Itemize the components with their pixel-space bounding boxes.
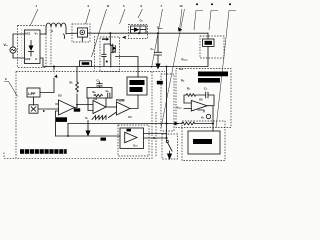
ground arrow under Co bbox=[155, 64, 160, 70]
stray dashed edge right of rectifier bbox=[50, 26, 52, 67]
wire into load detect bbox=[212, 130, 215, 132]
wire blade to arrow bbox=[169, 151, 171, 154]
inductor L bbox=[46, 23, 66, 34]
output capacitor Co bbox=[155, 52, 162, 55]
label 12 bbox=[196, 3, 198, 5]
node switch lane bbox=[166, 123, 168, 125]
bridge diode symbol bbox=[30, 41, 32, 57]
wire U4 to driver bbox=[130, 95, 138, 109]
wire multiplier to U3 bbox=[38, 108, 59, 110]
label 13 bbox=[229, 3, 231, 5]
transistor Q1 bbox=[110, 44, 115, 53]
Ca stubs bbox=[99, 82, 101, 88]
sensor bottom stub bbox=[81, 37, 83, 41]
leader to rectifier box bbox=[30, 9, 38, 26]
label 4 bbox=[211, 3, 213, 5]
sense line label bbox=[157, 81, 163, 85]
Vref source circle bbox=[206, 114, 210, 118]
rectifier bridge box bbox=[24, 30, 40, 64]
switch blade bbox=[168, 143, 173, 152]
wire bus to Q1 bbox=[109, 33, 111, 43]
feedback line long wire bbox=[68, 123, 182, 125]
svg-text:U5: U5 bbox=[199, 98, 203, 102]
comparator out wire bbox=[144, 137, 167, 139]
sensor dot bbox=[82, 32, 84, 34]
load fill mark bbox=[205, 41, 213, 45]
node on comp wire bbox=[153, 137, 155, 139]
LPF box bbox=[27, 88, 40, 97]
svg-text:AC1: AC1 bbox=[25, 32, 31, 36]
module text line1 bbox=[198, 72, 228, 77]
U3 input stubs bbox=[56, 104, 59, 111]
output sense dashed box bbox=[176, 69, 231, 128]
outer dashed bottom extension bbox=[4, 153, 16, 159]
svg-text:PWM: PWM bbox=[116, 99, 125, 103]
leader 13 long to load detect box bbox=[216, 11, 236, 129]
resistor Rn zigzag bbox=[186, 94, 196, 97]
leader 10 bbox=[180, 9, 182, 27]
AC source circle bbox=[10, 47, 16, 53]
op-amp U3 bbox=[59, 100, 75, 115]
leader to sensor box bbox=[86, 9, 91, 24]
inductor current arrow iL bbox=[48, 30, 53, 32]
load comparator box bbox=[120, 128, 144, 148]
ground arrow under Vs bbox=[85, 131, 90, 137]
sensor dashed box bbox=[72, 24, 90, 42]
svg-text:V+: V+ bbox=[35, 32, 39, 36]
svg-text:U3: U3 bbox=[58, 94, 62, 98]
feedback RC wire bbox=[184, 95, 214, 106]
wire source bottom bbox=[13, 53, 24, 58]
node after inductor hook mark bbox=[64, 34, 65, 39]
wire inductor to sensor bbox=[66, 32, 78, 34]
wire vout to U5 bbox=[184, 103, 191, 109]
resistor Rb bbox=[76, 67, 78, 105]
AC source sine mark bbox=[12, 49, 15, 50]
Vref stub bbox=[198, 110, 204, 112]
long dashed separator bbox=[16, 71, 165, 73]
leader 7 bbox=[152, 9, 163, 68]
switch lane dashed box bbox=[162, 134, 178, 159]
wire U3 out to U2 bbox=[75, 105, 94, 108]
svg-text:AC2: AC2 bbox=[25, 57, 31, 61]
sense entry arrow bbox=[53, 66, 55, 68]
comparator top mark bbox=[127, 129, 132, 132]
load detect dashed box bbox=[182, 121, 225, 161]
vertical sense wire bbox=[166, 67, 168, 142]
inner dotted column bbox=[21, 30, 23, 66]
boost diode D bbox=[134, 27, 140, 32]
load dashed box bbox=[200, 36, 224, 58]
stray dashed vertical bbox=[155, 112, 157, 158]
leader 3 long to load comparator bbox=[161, 9, 185, 128]
ground arrow bottom bbox=[167, 154, 172, 161]
load detect text bbox=[193, 139, 212, 144]
wire Co to ground bbox=[157, 55, 159, 64]
wire entry to LPF bbox=[40, 78, 54, 93]
input label bbox=[101, 138, 107, 141]
diode dashed box bbox=[129, 25, 148, 39]
driver aux wire bbox=[144, 133, 167, 135]
snubber capacitor plates bbox=[102, 55, 106, 57]
node at diode out bbox=[138, 32, 140, 34]
wire Q1 source down bbox=[111, 53, 114, 68]
current sensor box bbox=[78, 28, 88, 37]
node U5 out bbox=[212, 123, 214, 125]
node Q1 drain bbox=[109, 32, 111, 34]
feedback drop wire bbox=[67, 124, 69, 137]
leader 12 bbox=[194, 11, 203, 31]
U3 sense drop wire bbox=[55, 111, 57, 136]
leader to switch box bbox=[92, 9, 107, 57]
op-amp U5 bbox=[191, 101, 207, 112]
node Co top bbox=[157, 32, 159, 34]
load detect box bbox=[188, 131, 220, 154]
arrowhead of leader 10 bbox=[178, 27, 183, 32]
sawtooth to U4 stub bbox=[109, 112, 117, 118]
op-amp U2 bbox=[93, 101, 106, 114]
current arrow after node bbox=[102, 38, 109, 41]
rectifier dashed box bbox=[18, 26, 47, 68]
node feedback drop bbox=[67, 135, 69, 137]
svg-text:U4: U4 bbox=[128, 115, 132, 119]
load box RL bbox=[203, 39, 215, 47]
top bus wire bbox=[88, 32, 209, 34]
resistor R load sense bbox=[182, 122, 195, 125]
comparator module dashed box bbox=[118, 125, 149, 156]
caption text blocks bbox=[20, 149, 67, 154]
stub V- to bus bbox=[40, 58, 43, 67]
wire source top bbox=[13, 34, 24, 47]
wire load to bottom bus bbox=[43, 47, 208, 67]
gate drive wire bbox=[116, 57, 139, 78]
compensation network box bbox=[87, 88, 112, 99]
svg-text:V-: V- bbox=[35, 57, 38, 61]
sawtooth ground wire bbox=[87, 121, 89, 131]
control module dashed box bbox=[16, 72, 152, 159]
node Rb to U3 out bbox=[76, 104, 78, 106]
feedback wires bbox=[88, 98, 106, 111]
node sense top bbox=[166, 66, 168, 68]
resistor Ra bbox=[94, 94, 102, 96]
wire U2 to U4 bbox=[106, 106, 117, 108]
U3 module text bbox=[56, 117, 67, 122]
wire LPF to multiplier bbox=[33, 97, 35, 105]
wire to output capacitor bbox=[157, 33, 159, 52]
wire U5 out down bbox=[207, 106, 213, 131]
multiplier X mark bbox=[31, 107, 36, 111]
leader 9 bbox=[4, 82, 18, 97]
junction mark bbox=[43, 110, 45, 112]
sensor circle bbox=[80, 30, 85, 35]
sawtooth symbol bbox=[92, 116, 106, 120]
module text line2 bbox=[198, 78, 220, 83]
leader to diode box bbox=[138, 9, 143, 18]
stray dashed vertical mid bbox=[94, 36, 96, 71]
comparator triangle bbox=[125, 132, 137, 142]
wire V+ to inductor bbox=[40, 33, 46, 35]
svg-text:LPF: LPF bbox=[28, 92, 36, 96]
comparator input wire bbox=[56, 135, 121, 137]
capacitor Ca bbox=[97, 84, 102, 86]
driver text line2 bbox=[130, 87, 143, 92]
multiplier box bbox=[29, 105, 38, 113]
current arrow into diode bbox=[122, 36, 126, 39]
switch node bbox=[166, 140, 168, 142]
boost diode box bbox=[131, 26, 147, 33]
Vea label bbox=[74, 108, 80, 111]
svg-text:10: 10 bbox=[180, 4, 183, 8]
driver module box bbox=[127, 77, 147, 95]
wire bus into load bbox=[207, 33, 209, 39]
node comp out bbox=[166, 137, 168, 139]
junction near source bbox=[106, 61, 108, 63]
capacitor Cn plates bbox=[206, 92, 208, 98]
sense resistor mark bbox=[82, 62, 90, 65]
driver text line1 bbox=[130, 80, 145, 85]
snubber branch wire bbox=[104, 44, 110, 67]
wire resistor to node bbox=[195, 123, 213, 125]
switch dashed box bbox=[100, 37, 120, 72]
comparator U4 bbox=[117, 102, 131, 115]
leader to C6 bbox=[120, 9, 126, 24]
sense resistor box on bus bbox=[80, 61, 92, 67]
capacitor Cb bbox=[108, 93, 110, 97]
leader 4 bbox=[209, 11, 218, 31]
arrow on feedback line bbox=[175, 122, 180, 125]
sense lane dashed box bbox=[161, 74, 174, 131]
